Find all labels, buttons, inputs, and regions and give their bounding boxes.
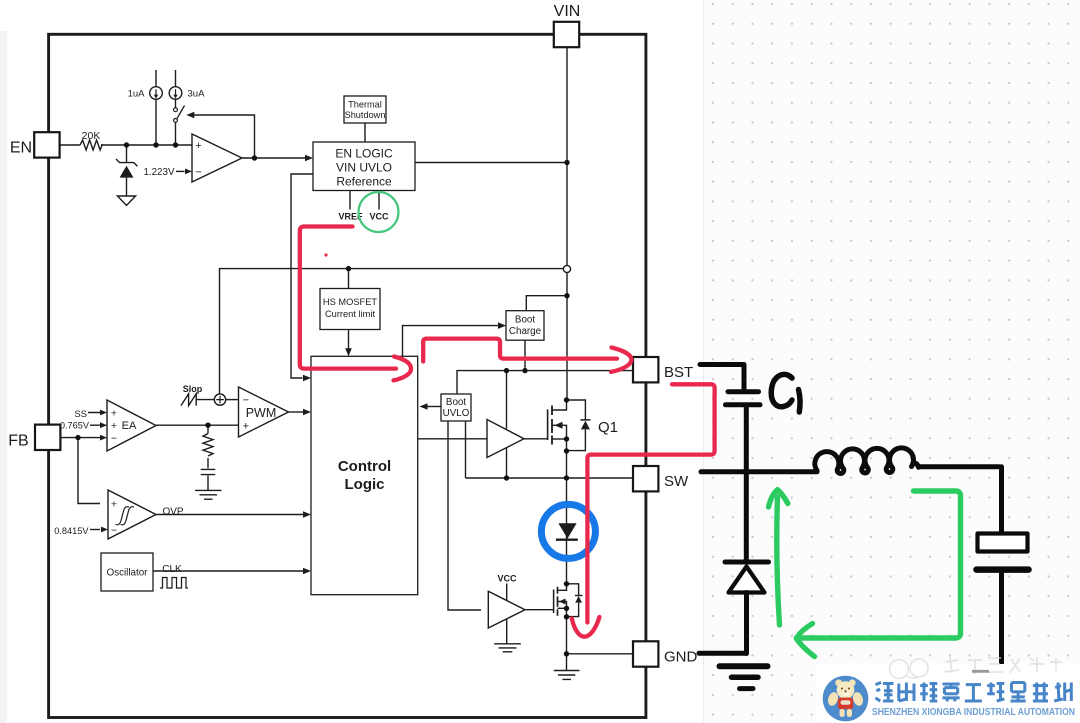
svg-text:Boot: Boot (515, 315, 535, 326)
svg-text:Boot: Boot (446, 397, 466, 408)
svg-text:Control: Control (338, 458, 391, 475)
svg-text:VIN: VIN (554, 3, 581, 20)
svg-text:+: + (111, 420, 117, 432)
svg-text:+: + (243, 420, 249, 432)
svg-text:20K: 20K (82, 130, 101, 142)
svg-text:Reference: Reference (336, 175, 392, 189)
svg-text:Slop: Slop (183, 384, 203, 394)
svg-text:0.8415V: 0.8415V (54, 526, 89, 536)
svg-text:UVLO: UVLO (443, 408, 470, 419)
svg-text:VCC: VCC (369, 212, 389, 222)
svg-text:−: − (111, 433, 117, 445)
svg-text:BST: BST (664, 364, 693, 381)
svg-text:1.223V: 1.223V (143, 167, 175, 178)
svg-text:GND: GND (664, 649, 698, 666)
svg-text:−: − (111, 525, 117, 537)
svg-text:Current limit: Current limit (325, 309, 376, 319)
svg-text:SHENZHEN XIONGBA INDUSTRIAL AU: SHENZHEN XIONGBA INDUSTRIAL AUTOMATION (872, 707, 1075, 718)
svg-text:HS MOSFET: HS MOSFET (323, 297, 378, 307)
svg-text:3uA: 3uA (188, 89, 206, 100)
svg-text:0.765V: 0.765V (60, 421, 90, 431)
svg-text:Q1: Q1 (598, 419, 618, 436)
svg-text:+: + (195, 140, 201, 152)
svg-text:Charge: Charge (509, 326, 542, 337)
svg-text:Shutdown: Shutdown (345, 110, 386, 120)
svg-text:EN LOGIC: EN LOGIC (335, 147, 393, 161)
svg-text:EA: EA (122, 420, 137, 432)
svg-text:VCC: VCC (497, 574, 517, 584)
svg-text:EN: EN (10, 140, 32, 157)
svg-text:+: + (111, 499, 117, 511)
svg-text:−: − (243, 395, 249, 407)
svg-text:FB: FB (8, 433, 28, 450)
svg-text:1uA: 1uA (128, 89, 146, 100)
svg-text:SW: SW (664, 473, 689, 490)
svg-text:OVP: OVP (162, 507, 183, 518)
svg-text:CLK: CLK (162, 564, 182, 575)
svg-text:SS: SS (74, 409, 87, 420)
svg-text:VIN UVLO: VIN UVLO (336, 161, 392, 175)
svg-text:Logic: Logic (345, 476, 385, 493)
svg-text:Oscillator: Oscillator (107, 568, 149, 579)
svg-text:Thermal: Thermal (348, 100, 382, 110)
svg-text:PWM: PWM (246, 406, 277, 420)
svg-text:+: + (111, 407, 117, 419)
svg-text:−: − (195, 167, 201, 179)
